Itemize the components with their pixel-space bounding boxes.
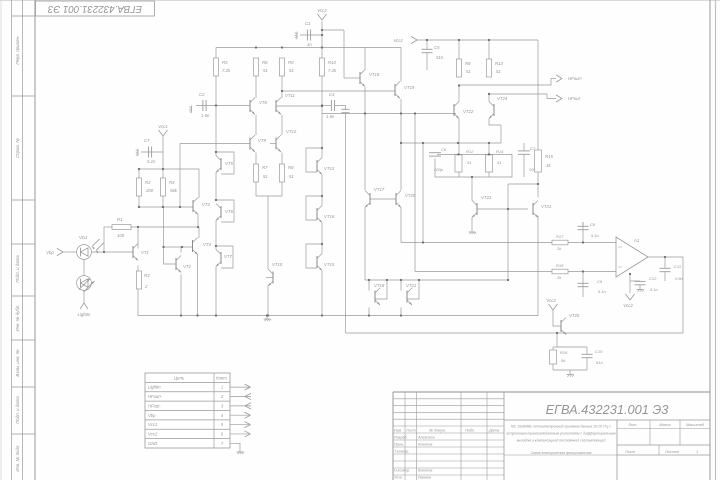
wire VT23 VT21 base line: [477, 208, 528, 210]
svg-text:VT6: VT6: [225, 209, 233, 214]
transistor VT15: [316, 256, 318, 268]
svg-text:51: 51: [289, 68, 294, 73]
wire HFout- net: [489, 94, 556, 99]
wire VT17 collector drop: [364, 114, 366, 191]
margin cell divider: [12, 339, 36, 341]
resistor R3: [136, 271, 141, 289]
svg-text:1: 1: [696, 450, 698, 454]
svg-text:R6: R6: [262, 60, 268, 65]
svg-text:7.2k: 7.2k: [328, 68, 337, 73]
wire VT18 base: [344, 77, 360, 79]
svg-text:VT16: VT16: [324, 214, 335, 219]
wire C1 lead: [300, 34, 322, 36]
svg-text:выходом и компенсацией постоян: выходом и компенсацией постоянной состав…: [517, 439, 606, 443]
resistor R18: [552, 269, 568, 274]
wire VT10 collector: [267, 196, 269, 269]
wire VT22 collector: [458, 86, 460, 102]
svg-text:100: 100: [117, 233, 125, 238]
margin cell divider: [12, 15, 36, 17]
svg-text:Инв. № подл.: Инв. № подл.: [15, 444, 20, 471]
wire emitter rail second stage: [322, 113, 456, 115]
title block grid: [393, 391, 710, 393]
svg-text:1.6n: 1.6n: [201, 113, 210, 118]
transistor VT22: [453, 104, 455, 116]
resistor R12: [455, 155, 462, 172]
svg-text:51: 51: [497, 160, 501, 165]
wire VT9 emitter to R7: [255, 153, 257, 165]
svg-text:Коколов: Коколов: [418, 469, 432, 473]
svg-text:7.2k: 7.2k: [222, 68, 231, 73]
wire C12 branch: [630, 280, 640, 282]
svg-text:VT20: VT20: [405, 193, 416, 198]
svg-text:R9: R9: [288, 60, 294, 65]
svg-text:VT4: VT4: [203, 242, 211, 247]
wire VT2 base lead: [164, 247, 177, 264]
svg-text:VT8: VT8: [259, 100, 267, 105]
wire node A2 vertical: [343, 30, 345, 78]
wire riser x508: [507, 184, 509, 280]
wire R2 bottom: [138, 196, 140, 207]
svg-text:VT19: VT19: [404, 85, 415, 90]
svg-text:R8: R8: [465, 61, 471, 66]
margin cell divider: [12, 433, 36, 435]
transistor VT1: [132, 246, 134, 258]
capacitor C6: [429, 152, 441, 154]
wire VT11 base: [276, 105, 322, 107]
wire y143 bus: [401, 142, 501, 144]
wire loop gnd stem: [569, 370, 571, 374]
wire R9 bottom: [281, 76, 283, 91]
svg-text:Лист: Лист: [624, 450, 635, 454]
capacitor C2: [202, 100, 204, 111]
wire ground rail: [138, 315, 538, 317]
wire VT19 emitter VT20 collector: [400, 99, 402, 190]
wire R16 C10 loop bottom: [553, 369, 587, 371]
margin cell divider: [12, 295, 36, 297]
svg-text:51: 51: [466, 69, 471, 74]
resistor R16: [550, 350, 557, 364]
wire GND pin: [230, 443, 240, 452]
svg-text:A1: A1: [633, 238, 640, 243]
svg-text:R4: R4: [169, 180, 175, 185]
wire Vcc1 right bus: [418, 39, 538, 41]
svg-text:Листов: Листов: [664, 450, 679, 454]
wire VT23 collector riser: [471, 177, 473, 201]
wire VT2 collector: [180, 247, 182, 253]
svg-text:R13: R13: [495, 61, 503, 66]
wire VT17 emitter drop: [364, 208, 366, 281]
ground connector GND: [237, 451, 244, 453]
svg-text:Подп.: Подп.: [465, 429, 475, 433]
transistor VT16: [316, 208, 318, 220]
wire VT5 emitter chain: [215, 173, 217, 201]
wire R4 bottom: [162, 196, 164, 207]
svg-text:200: 200: [145, 188, 154, 193]
power Vcc2 opamp: [626, 294, 631, 300]
wire C12 lower: [639, 285, 641, 289]
svg-text:1: 1: [221, 385, 223, 390]
resistor R9: [279, 58, 284, 76]
frame left line: [34, 0, 36, 480]
wire R8 merge: [268, 182, 282, 196]
wire VT24 collector: [488, 94, 490, 102]
resistor R13: [486, 59, 491, 77]
wire VT17 VT20 base tie: [370, 198, 396, 200]
transistor VT19b: [406, 291, 408, 303]
wire HFout+ net: [459, 79, 556, 86]
margin column line: [22, 0, 24, 480]
wire VT11 emitter: [281, 115, 283, 135]
wire VT15 emitter: [321, 271, 323, 316]
wire VT20 emitter to A: [400, 208, 402, 243]
wire C7 lead: [141, 151, 163, 153]
svg-text:Vcc2: Vcc2: [317, 8, 327, 13]
ground C7: [136, 149, 138, 157]
margin cell divider: [12, 199, 36, 201]
resistor R7: [253, 164, 258, 182]
svg-text:Алексеев: Алексеев: [417, 436, 435, 440]
svg-text:VT2: VT2: [183, 264, 191, 269]
stamp box: [36, 1, 155, 16]
wire VT19 base: [282, 90, 395, 92]
capacitor C5: [422, 48, 433, 50]
wire VT19b emitter: [400, 308, 402, 316]
wire bus y48 extension: [322, 47, 401, 49]
wire R4 drop: [162, 169, 164, 178]
wire VT13 emitter: [321, 175, 323, 206]
svg-text:Инв. № дубл.: Инв. № дубл.: [15, 304, 20, 331]
capacitor C10: [582, 353, 593, 355]
wire bias chain down: [163, 207, 165, 247]
wire output bottom net: [346, 257, 684, 333]
svg-text:LightIn: LightIn: [148, 385, 161, 390]
svg-text:Схема электрическая принципиал: Схема электрическая принципиальная: [531, 451, 592, 455]
wire R2 top drop: [138, 169, 140, 178]
capacitor C9: [578, 282, 589, 284]
svg-text:VT25: VT25: [569, 313, 580, 318]
svg-text:C9: C9: [597, 279, 603, 284]
wire VT18 emitter drop: [364, 87, 366, 114]
transistor VT19: [394, 84, 396, 96]
resistor R10: [319, 58, 324, 76]
svg-text:Vcc1: Vcc1: [148, 422, 157, 427]
sheet left edge: [0, 0, 2, 480]
wire VT25 emitter join: [565, 333, 567, 335]
svg-text:R1: R1: [117, 217, 123, 222]
transistor VT3: [192, 200, 194, 212]
wire VT25 to R16 loop: [556, 333, 558, 347]
svg-text:HFout+: HFout+: [148, 394, 162, 399]
wire R1 left lead: [104, 226, 112, 228]
transistor VT12: [275, 138, 277, 150]
wire R7 merge: [256, 182, 268, 196]
svg-text:5.1n: 5.1n: [650, 287, 659, 292]
wire VT7 emitter drop: [215, 267, 217, 316]
svg-text:Справ. №: Справ. №: [15, 138, 20, 158]
svg-text:51n: 51n: [596, 360, 603, 365]
svg-text:Подп. и дата: Подп. и дата: [15, 396, 20, 424]
wire C8 riser: [582, 222, 584, 243]
svg-text:R15: R15: [545, 154, 553, 159]
wire R15 bottom node: [537, 172, 539, 184]
wire Vcc2 branch to node A2: [322, 29, 344, 31]
svg-text:Перв. примен.: Перв. примен.: [15, 35, 20, 64]
svg-text:R5: R5: [222, 60, 228, 65]
svg-text:Разраб.: Разраб.: [394, 436, 408, 440]
wire VT21 collector: [537, 184, 539, 198]
wire C5 stem lower: [426, 53, 428, 70]
resistor R15: [535, 150, 542, 172]
op-amp A1: [616, 237, 648, 277]
svg-text:200p: 200p: [433, 167, 444, 172]
svg-text:Масса: Масса: [659, 423, 670, 427]
svg-text:56k: 56k: [170, 188, 178, 193]
svg-text:VT22: VT22: [463, 109, 474, 114]
junction dots: [255, 46, 257, 48]
wire supply branch left: [139, 169, 199, 198]
wire Vcc1 left stem: [162, 136, 164, 169]
svg-text:R2: R2: [145, 180, 151, 185]
svg-text:C6: C6: [441, 147, 447, 152]
transistor VT21: [532, 203, 534, 215]
svg-text:Vbp: Vbp: [46, 250, 54, 255]
svg-text:VT13: VT13: [324, 166, 335, 171]
wire mirror base line: [164, 246, 193, 248]
wire R16 top: [552, 347, 554, 350]
svg-text:VT18: VT18: [369, 72, 380, 77]
capacitor C8: [578, 225, 589, 227]
wire VT10 base stub: [266, 277, 273, 279]
wire VT4 emitter: [197, 255, 199, 316]
wire R16 bottom: [552, 364, 554, 370]
svg-text:R14: R14: [496, 149, 504, 154]
svg-text:R17: R17: [556, 234, 564, 239]
svg-text:ЕГВА.432231.001 Э3: ЕГВА.432231.001 Э3: [546, 402, 669, 417]
resistor R14: [486, 155, 493, 172]
svg-text:Масштаб: Масштаб: [686, 423, 705, 427]
margin column line: [11, 0, 13, 480]
svg-text:51: 51: [496, 69, 501, 74]
svg-text:VT12: VT12: [286, 129, 297, 134]
wire VD1 VD2 link: [83, 259, 85, 276]
capacitor C11: [660, 267, 671, 269]
wire node to riser: [508, 183, 538, 185]
svg-text:R18: R18: [556, 263, 564, 268]
wire R14 bottom: [488, 172, 490, 177]
svg-text:VT21: VT21: [541, 204, 552, 209]
svg-text:5.1n: 5.1n: [591, 233, 600, 238]
wire VT23 emitter: [471, 218, 473, 232]
transistor VT10: [272, 272, 274, 284]
capacitor C12: [635, 280, 646, 282]
svg-text:Изм.: Изм.: [394, 429, 402, 433]
wire Vcc2 left bus: [216, 47, 322, 49]
transistor VT13: [316, 160, 318, 172]
margin cell divider: [12, 386, 36, 388]
wire B to opamp: [568, 271, 616, 273]
svg-text:1n: 1n: [307, 42, 312, 47]
svg-text:C8: C8: [590, 222, 596, 227]
wire R1 net corner: [198, 227, 200, 238]
svg-text:VT17: VT17: [374, 187, 385, 192]
svg-text:Н.контр.: Н.контр.: [394, 469, 410, 473]
wire VT18 collector drop: [364, 48, 366, 70]
svg-text:51: 51: [467, 160, 471, 165]
wire VT21 emitter: [537, 216, 539, 316]
svg-text:C1: C1: [305, 21, 311, 26]
wire VT22 emitter to R12: [458, 119, 460, 155]
svg-text:R10: R10: [328, 60, 336, 65]
wire input node riser: [103, 227, 105, 252]
svg-text:Конт.: Конт.: [216, 376, 228, 381]
resistor R4: [160, 178, 165, 196]
wire rail gnd stem: [266, 316, 268, 320]
wire R5 bottom chain: [215, 76, 217, 156]
wire VT10 emitter: [267, 286, 269, 316]
wire VT2 emitter: [180, 275, 182, 316]
svg-text:Пров.: Пров.: [394, 443, 404, 447]
port LightIn: [80, 303, 84, 309]
svg-text:Дата: Дата: [488, 429, 499, 433]
resistor R2: [136, 178, 141, 196]
svg-text:HFout-: HFout-: [568, 96, 582, 101]
wire R9 to VT11: [281, 91, 283, 98]
wire feedback B: [415, 271, 552, 273]
wire R10 bottom chain: [321, 76, 323, 158]
transistor VT7: [220, 252, 222, 264]
svg-text:Vcc1: Vcc1: [393, 38, 403, 43]
wire RC box outline: [435, 154, 512, 177]
wire R15: [537, 149, 539, 151]
svg-text:VT21: VT21: [406, 283, 417, 288]
wire C11 stem: [664, 257, 666, 268]
wire VD1 to VT1 base: [91, 251, 133, 253]
wire bias riser: [179, 144, 181, 208]
ground R16 C10: [567, 374, 574, 376]
power Vcc1 left: [159, 130, 164, 136]
wire C12 stem: [639, 280, 641, 282]
svg-text:Утв.: Утв.: [394, 476, 403, 480]
transistor VT18b: [374, 291, 376, 303]
wire C3 to output net: [345, 113, 347, 333]
wire VT12 emitter to R8: [281, 153, 283, 165]
wire VT1 collector: [137, 227, 139, 249]
svg-text:VT24: VT24: [497, 96, 508, 101]
svg-text:VT15: VT15: [324, 262, 335, 267]
wire VT19b collector: [400, 280, 402, 291]
svg-text:R8: R8: [288, 165, 294, 170]
capacitor C7b: [518, 150, 530, 152]
wire C10 drop: [586, 347, 588, 354]
wire VT24 emitter riser: [500, 125, 502, 143]
svg-text:Vcc1: Vcc1: [158, 124, 168, 129]
resistor R5: [213, 58, 218, 76]
wire VT12 base stub: [270, 143, 276, 145]
resistor R8b: [456, 59, 461, 77]
svg-text:5.1n: 5.1n: [147, 159, 156, 164]
transistor VT18: [359, 72, 361, 84]
ground C1: [295, 32, 297, 40]
wire C5 stem: [426, 40, 428, 49]
wire C7b stem: [523, 143, 525, 151]
transistor VT5: [220, 158, 222, 170]
svg-text:C10: C10: [595, 349, 603, 354]
wire C2 to VT8 base: [196, 105, 250, 107]
connector table grid: [145, 373, 230, 448]
wire VT8 emitter: [255, 115, 257, 135]
ground rail symbol: [264, 318, 271, 320]
svg-text:LightIn: LightIn: [78, 312, 92, 317]
svg-text:встроенным трансимпедансным ус: встроенным трансимпедансным усилителем с…: [506, 432, 616, 436]
wire R12 bottom: [458, 172, 460, 177]
svg-text:C7: C7: [144, 138, 150, 143]
connector pin arrows: [230, 386, 249, 388]
svg-text:C5: C5: [434, 45, 440, 50]
wire opamp gnd stem: [629, 274, 631, 293]
sheet right edge: [715, 0, 717, 480]
svg-text:51: 51: [263, 174, 268, 179]
svg-text:VT1: VT1: [141, 250, 149, 255]
wire R16 C10 loop top: [553, 346, 587, 348]
svg-text:51n: 51n: [436, 55, 444, 60]
wire R8 top drop: [458, 40, 460, 59]
svg-text:C12: C12: [649, 276, 657, 281]
ground C2: [189, 106, 191, 114]
sheet top edge: [0, 0, 720, 2]
svg-text:МС 16х80МБ: оптоэлектронный пр: МС 16х80МБ: оптоэлектронный приемник дан…: [511, 425, 611, 429]
ground C12: [637, 289, 644, 291]
wire VT18b emitter: [368, 308, 370, 316]
svg-text:Цепь: Цепь: [174, 376, 185, 381]
svg-text:VT10: VT10: [272, 262, 283, 267]
transistor VT20: [395, 193, 397, 205]
wire VT19 collector drop: [400, 48, 402, 82]
svg-text:HFout+: HFout+: [568, 76, 583, 81]
wire feedback A: [401, 242, 552, 244]
svg-text:51: 51: [263, 68, 268, 73]
wire VT18b collector: [368, 280, 370, 291]
wire R3 to rail: [137, 289, 139, 316]
ground VT23: [469, 231, 476, 233]
wire Vcc2b stem: [553, 310, 561, 326]
wire R6 bottom: [255, 76, 257, 98]
margin cell divider: [12, 95, 36, 97]
resistor R1: [112, 225, 131, 230]
wire Vcc2 stem: [321, 21, 323, 58]
wire C4 lead right: [335, 106, 346, 110]
svg-text:1.6n: 1.6n: [326, 114, 335, 119]
photodiode VD1: [77, 245, 92, 260]
svg-text:VT3: VT3: [202, 202, 210, 207]
svg-text:R3: R3: [144, 273, 150, 278]
svg-text:Подп. и дата: Подп. и дата: [15, 255, 20, 283]
wire R13 top drop: [488, 40, 490, 59]
wire C9 drop: [582, 272, 584, 298]
wire VT24 emitter lead: [489, 119, 501, 126]
svg-text:VD1: VD1: [79, 235, 88, 240]
transistor VT25: [560, 320, 562, 332]
transistor VT24: [493, 104, 495, 116]
transistor VT9: [249, 138, 251, 150]
wire input node: [63, 251, 77, 253]
svg-text:51: 51: [289, 174, 294, 179]
svg-text:5.1n: 5.1n: [598, 289, 607, 294]
svg-text:№ докум.: № докум.: [429, 429, 446, 433]
wire C7b stem lower: [523, 154, 525, 177]
transistor VT23: [476, 203, 478, 215]
port HFout+: [556, 75, 562, 79]
wire VT6 emitter to VT7: [215, 221, 217, 250]
